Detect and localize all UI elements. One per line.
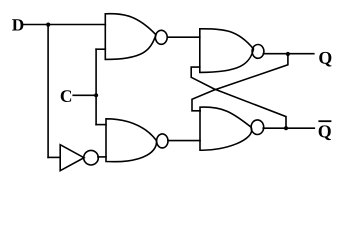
wire U4 output to Qbar [263,127,314,129]
nand gate U3 bubble [252,45,264,59]
wire C input horizontal [73,94,96,96]
inverter bubble [84,150,99,165]
junction dot at Qbar output [284,126,288,130]
wire C to U1 lower input [96,48,105,50]
wire Q feedback to U4 upper input [192,54,288,111]
label Q [319,52,331,67]
wire D input horizontal [24,24,106,26]
wire U3 output to Q [263,53,314,55]
wire Qbar feedback to U3 lower input [191,67,286,128]
nand gate U1 bubble [155,30,167,44]
wire inverter input stub [48,156,60,158]
nand gate U3 body [200,29,254,73]
junction dot at C branch [94,93,98,97]
nand gate U2 body [106,119,157,162]
label C [61,90,71,102]
wire inverter output to gate U2 [98,156,106,158]
wire C to U2 upper input [96,124,106,126]
wire U2 output to U4 input [168,140,200,142]
nand gate U4 body [200,107,252,150]
wire C vertical bus [95,49,97,124]
overline of Qbar [318,120,331,122]
inverter triangle [60,145,84,171]
nand gate U1 body [105,14,156,60]
label Qbar [319,125,331,140]
wire D vertical drop to inverter [47,25,49,158]
label D [12,19,23,30]
junction dot at D branch [46,23,50,27]
nand gate U2 bubble [157,134,168,148]
junction dot at Q output [286,52,290,56]
nand gate U4 bubble [251,120,264,135]
wire U1 output to U3 input [168,36,200,38]
